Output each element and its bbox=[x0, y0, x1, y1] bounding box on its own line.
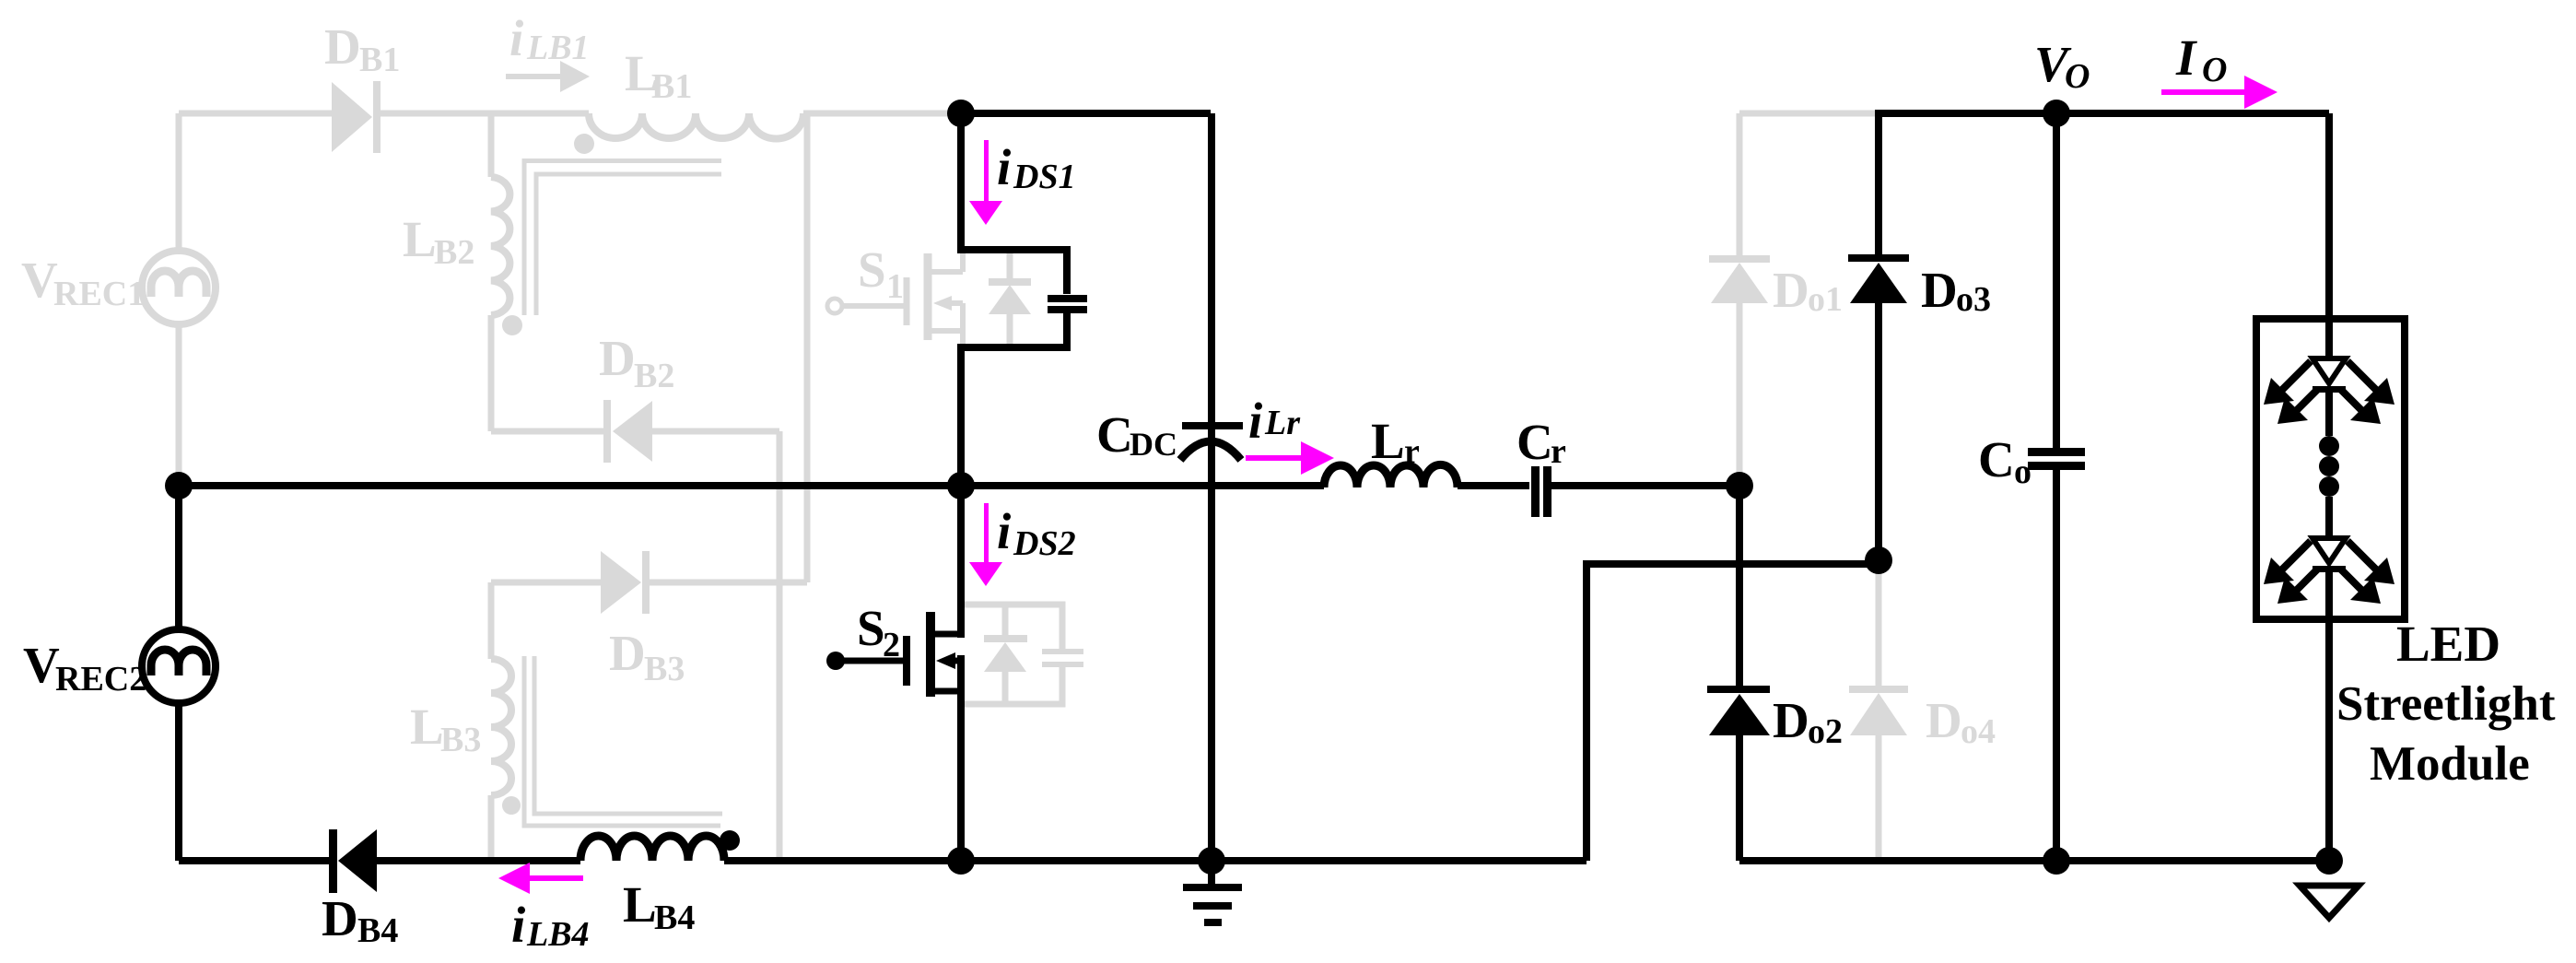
svg-text:I: I bbox=[2175, 29, 2197, 86]
svg-text:L: L bbox=[623, 876, 657, 933]
svg-text:B1: B1 bbox=[651, 67, 692, 106]
svg-text:LB1: LB1 bbox=[526, 29, 590, 67]
svg-text:L: L bbox=[410, 699, 444, 755]
svg-text:DS2: DS2 bbox=[1013, 524, 1076, 563]
svg-text:i: i bbox=[997, 139, 1012, 195]
svg-text:REC2: REC2 bbox=[55, 660, 146, 699]
svg-text:C: C bbox=[1096, 406, 1133, 463]
svg-text:B3: B3 bbox=[644, 650, 685, 688]
svg-text:L: L bbox=[1371, 413, 1405, 469]
svg-text:D: D bbox=[1773, 262, 1809, 318]
svg-text:D: D bbox=[609, 625, 646, 681]
svg-text:B4: B4 bbox=[357, 911, 398, 950]
svg-text:C: C bbox=[1978, 431, 2015, 487]
svg-text:D: D bbox=[1773, 692, 1809, 748]
svg-text:C: C bbox=[1516, 414, 1553, 470]
svg-text:D: D bbox=[322, 890, 358, 946]
svg-text:V: V bbox=[21, 252, 58, 308]
svg-text:B3: B3 bbox=[440, 721, 481, 759]
svg-text:o: o bbox=[2014, 452, 2032, 491]
svg-text:B2: B2 bbox=[434, 233, 474, 272]
svg-text:S: S bbox=[857, 600, 885, 656]
svg-text:DC: DC bbox=[1130, 426, 1177, 463]
svg-text:o2: o2 bbox=[1808, 712, 1843, 751]
svg-text:o4: o4 bbox=[1961, 712, 1996, 751]
svg-text:LED: LED bbox=[2396, 616, 2500, 672]
svg-text:DS1: DS1 bbox=[1013, 158, 1076, 196]
svg-text:i: i bbox=[1248, 393, 1263, 449]
svg-text:B1: B1 bbox=[359, 41, 400, 79]
svg-text:r: r bbox=[1551, 432, 1566, 471]
svg-text:Module: Module bbox=[2370, 737, 2530, 791]
svg-text:REC1: REC1 bbox=[53, 275, 145, 313]
svg-text:r: r bbox=[1404, 432, 1420, 471]
svg-text:i: i bbox=[511, 897, 526, 953]
svg-text:O: O bbox=[2065, 57, 2090, 96]
svg-text:V: V bbox=[23, 637, 60, 693]
svg-text:Streetlight: Streetlight bbox=[2336, 677, 2556, 731]
svg-text:B2: B2 bbox=[634, 357, 674, 395]
svg-text:D: D bbox=[1926, 692, 1962, 748]
svg-text:D: D bbox=[1921, 262, 1958, 318]
svg-text:D: D bbox=[599, 330, 636, 386]
svg-text:2: 2 bbox=[883, 626, 900, 664]
svg-text:1: 1 bbox=[886, 267, 904, 306]
svg-text:L: L bbox=[403, 211, 437, 267]
svg-text:i: i bbox=[997, 503, 1012, 559]
svg-text:Lr: Lr bbox=[1264, 404, 1301, 442]
svg-text:O: O bbox=[2202, 51, 2227, 89]
svg-text:LB4: LB4 bbox=[526, 915, 590, 954]
svg-text:i: i bbox=[509, 10, 524, 66]
svg-text:o3: o3 bbox=[1956, 280, 1991, 319]
svg-text:o1: o1 bbox=[1808, 280, 1843, 319]
svg-text:D: D bbox=[324, 18, 361, 75]
svg-text:B4: B4 bbox=[654, 898, 695, 937]
svg-text:S: S bbox=[858, 241, 886, 298]
